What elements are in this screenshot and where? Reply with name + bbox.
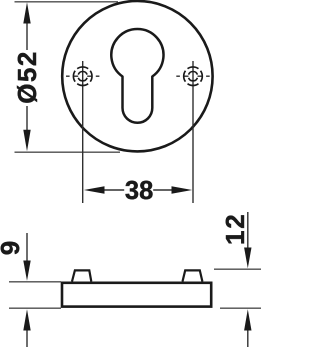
arrow 12 up	[244, 309, 251, 330]
extension line 12 top	[214, 268, 261, 270]
svg-text:12: 12	[220, 212, 250, 245]
screw hole left: horizontal dash-dot centerline	[66, 75, 99, 77]
svg-text:38: 38	[125, 177, 153, 205]
side view boss right	[183, 270, 203, 281]
screw hole right: inner circle	[189, 71, 198, 80]
dimension line Ø52 vertical	[26, 22, 28, 130]
dimension line 12 vertical	[247, 212, 249, 347]
screw hole right: horizontal dash-dot centerline	[176, 75, 209, 77]
screw hole left: outer circle arcs	[73, 67, 92, 86]
arrow 12 down	[244, 248, 251, 269]
euro profile keyhole	[111, 29, 163, 123]
svg-text:Ø52: Ø52	[12, 50, 42, 104]
svg-text:9: 9	[0, 241, 25, 255]
dimension line 38 horizontal	[103, 189, 173, 191]
escutcheon outer circle Ø52	[62, 1, 212, 151]
extension line 9/12 bottom left	[9, 307, 61, 309]
arrow Ø52 bottom	[23, 130, 30, 152]
extension line bottom (tangent circle bottom)	[15, 151, 121, 153]
side view plate	[62, 283, 211, 307]
dimension line 9 vertical	[26, 233, 28, 347]
screw hole right: centerline vertical / 38 extension	[192, 61, 194, 203]
extension line top (tangent circle top)	[15, 2, 121, 152]
arrow Ø52 top	[23, 2, 30, 23]
side view boss left	[72, 270, 91, 281]
screw hole right: outer circle arcs	[184, 67, 203, 86]
arrow 38 right	[172, 186, 193, 193]
screw hole left: centerline vertical / 38 extension	[82, 61, 84, 203]
screw hole left: inner circle	[78, 71, 87, 80]
arrow 9 up	[23, 309, 30, 330]
arrow 9 down	[23, 261, 30, 281]
extension line 12 bottom right	[220, 307, 261, 309]
arrow 38 left	[84, 186, 105, 193]
foot serif of digit 1	[241, 234, 244, 243]
extension line 9 top	[9, 269, 261, 308]
